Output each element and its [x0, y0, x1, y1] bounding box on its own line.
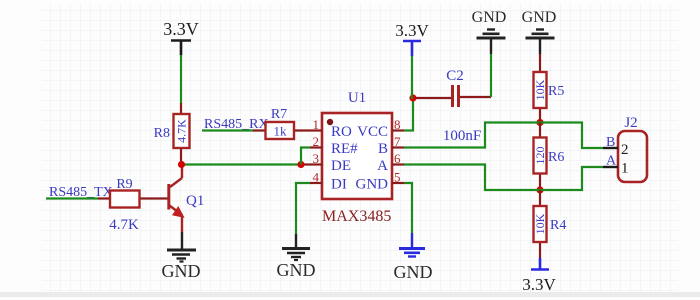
svg-text:100nF: 100nF	[443, 128, 481, 144]
svg-text:RO: RO	[331, 124, 352, 140]
wire DI to ground	[296, 183, 310, 247]
wire 3.3V to R8	[180, 55, 182, 103]
svg-text:DE: DE	[331, 158, 351, 174]
svg-text:A: A	[377, 158, 388, 174]
svg-text:120: 120	[533, 147, 547, 165]
svg-text:RE#: RE#	[331, 141, 358, 157]
wire 3.3V to VCC node	[412, 56, 413, 98]
ground GND (power, right of U1, blue)	[394, 249, 433, 283]
svg-text:J2: J2	[624, 115, 637, 131]
svg-text:R4: R4	[550, 218, 566, 233]
svg-text:C2: C2	[446, 68, 464, 84]
svg-text:7: 7	[394, 134, 401, 149]
node junction RE# / DE	[297, 161, 304, 168]
resistor R7	[253, 107, 310, 139]
svg-text:4.7K: 4.7K	[109, 217, 139, 233]
svg-text:2: 2	[621, 142, 629, 158]
resistor R6	[533, 123, 564, 188]
node junction VCC / C2 / 3.3V	[409, 94, 416, 101]
svg-text:3: 3	[313, 151, 320, 166]
U1 pin 1 marker dot	[327, 119, 333, 125]
power port 3.3V (bottom right)	[522, 258, 556, 294]
U1 pin 7 stub	[392, 146, 404, 148]
svg-text:VCC: VCC	[357, 124, 388, 140]
net label RS485_RX	[204, 117, 269, 132]
svg-text:10K: 10K	[533, 79, 547, 100]
wire RS485_TX to R9	[46, 197, 98, 199]
svg-text:GND: GND	[472, 9, 507, 26]
transistor Q1	[169, 168, 205, 233]
svg-text:R7: R7	[271, 107, 287, 122]
svg-text:Q1: Q1	[186, 193, 204, 209]
svg-text:R9: R9	[116, 177, 132, 192]
svg-text:1: 1	[313, 117, 320, 132]
U1 pin 2 stub	[310, 146, 322, 148]
wire DE net (junction to U1 pin 3)	[185, 163, 310, 165]
svg-text:8: 8	[394, 117, 401, 132]
svg-text:4.7K: 4.7K	[175, 119, 189, 143]
power port 3.3V (top left)	[163, 19, 199, 55]
IC U1 MAX3485	[310, 90, 404, 225]
net label RS485_TX	[49, 185, 113, 200]
ground GND (top, over R5)	[522, 9, 557, 54]
svg-text:6: 6	[394, 151, 401, 166]
wire U1 pin 5 GND to ground	[404, 183, 412, 247]
svg-text:GND: GND	[277, 260, 316, 280]
resistor R4	[533, 190, 566, 258]
resistor R8	[154, 103, 190, 161]
svg-text:1: 1	[621, 161, 629, 177]
J2 pin 1 line	[603, 166, 618, 168]
wire A net (U1 pin 6 to junction to J2 pin 1)	[404, 165, 603, 191]
svg-text:R5: R5	[548, 84, 564, 99]
node junction B net / R5 / R6	[536, 119, 543, 126]
wire Q1 emitter to ground	[181, 232, 183, 249]
wire B net (U1 pin 7 to junction to J2 pin 2)	[404, 123, 603, 149]
wire RS485_RX to R7	[202, 129, 253, 131]
node junction A net / R6 / R4	[536, 186, 543, 193]
svg-text:GND: GND	[356, 177, 389, 193]
connector J2	[603, 115, 647, 182]
svg-text:3.3V: 3.3V	[163, 19, 199, 39]
wire C2 to GND (top)	[460, 54, 491, 97]
svg-text:A: A	[606, 154, 617, 169]
svg-text:MAX3485: MAX3485	[322, 208, 391, 225]
node junction R8 / Q1 / DE net	[178, 161, 185, 168]
svg-text:10K: 10K	[533, 213, 547, 234]
U1 pin 8 stub	[392, 129, 404, 131]
svg-text:3.3V: 3.3V	[522, 275, 556, 294]
svg-text:GND: GND	[162, 261, 201, 281]
svg-text:DI: DI	[331, 177, 347, 193]
svg-text:GND: GND	[522, 9, 557, 26]
resistor R5	[533, 54, 564, 119]
U1 pin 4 stub	[310, 182, 322, 184]
ground GND (under DI)	[277, 249, 316, 281]
svg-text:B: B	[606, 135, 615, 150]
resistor R9	[98, 177, 168, 233]
svg-text:R6: R6	[548, 150, 564, 165]
svg-text:1k: 1k	[274, 124, 288, 139]
U1 pin 3 stub	[310, 163, 322, 165]
svg-text:4: 4	[313, 170, 320, 185]
svg-text:5: 5	[394, 170, 401, 185]
svg-text:GND: GND	[394, 262, 433, 282]
svg-text:2: 2	[313, 134, 320, 149]
U1 pin 1 stub	[310, 129, 322, 131]
power port 3.3V (top middle)	[395, 21, 429, 56]
U1 pin 6 stub	[392, 163, 404, 165]
capacitor C2	[443, 68, 481, 144]
ground GND (top, over C2)	[472, 9, 507, 54]
ground GND (under Q1)	[162, 250, 201, 281]
J2 pin 2 line	[603, 147, 618, 149]
svg-text:3.3V: 3.3V	[395, 21, 429, 40]
svg-text:U1: U1	[348, 90, 366, 106]
wire RE# branch (junction up to U1 pin 2)	[301, 148, 310, 165]
wire VCC net (U1 pin 8 up to node, node to C2)	[404, 98, 451, 131]
svg-text:B: B	[378, 141, 388, 157]
U1 pin 5 stub	[392, 182, 404, 184]
svg-text:R8: R8	[154, 126, 170, 141]
